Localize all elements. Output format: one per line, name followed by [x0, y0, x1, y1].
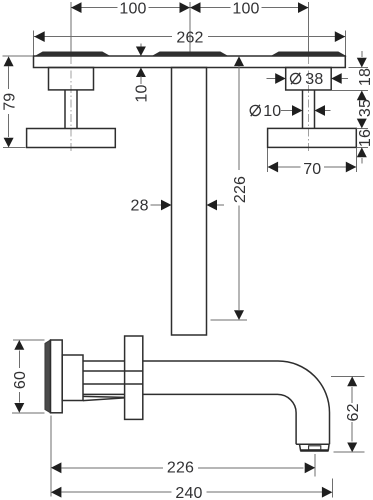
centerline left handle	[70, 2, 72, 152]
dim 28	[151, 200, 225, 211]
svg-text:18: 18	[357, 68, 373, 86]
left handle stem	[65, 90, 77, 129]
spout tube bottom outline	[143, 394, 296, 444]
svg-text:62: 62	[345, 403, 362, 421]
dim 70 arrows	[268, 162, 357, 173]
svg-text:262: 262	[176, 29, 203, 46]
left handle bar	[27, 129, 116, 148]
handle disc body	[51, 340, 63, 413]
svg-text:79: 79	[1, 93, 18, 111]
taper wedge	[83, 396, 124, 400]
label diameter 38	[291, 71, 324, 88]
cap left	[36, 52, 109, 56]
right handle stem	[303, 90, 315, 128]
svg-text:70: 70	[303, 161, 321, 178]
spout tube outline	[143, 361, 330, 444]
cap middle	[153, 52, 227, 56]
right handle bar	[268, 128, 357, 147]
dim 16 bottom arrow	[357, 147, 367, 163]
dim 35 arrows	[357, 119, 367, 129]
dim 240 ext right	[331, 479, 333, 498]
svg-text:35: 35	[357, 99, 373, 117]
dim 70 ext lines	[268, 148, 357, 172]
dim 70 line	[268, 166, 357, 168]
right chain ext escutcheon bottom	[331, 90, 368, 92]
svg-text:28: 28	[130, 198, 148, 215]
svg-text:226: 226	[232, 176, 249, 203]
dim 38 arrows	[267, 73, 349, 84]
cap right	[272, 52, 345, 56]
label diameter 10	[250, 103, 281, 120]
dim 226 ext right	[314, 454, 316, 476]
dim 226 bottom	[51, 462, 315, 473]
dim 100 left arrow	[71, 2, 82, 13]
dim 100 right arrow	[298, 2, 309, 13]
dim 79	[3, 56, 34, 148]
dim 18 arrows	[357, 51, 367, 100]
handle sleeve	[62, 355, 83, 401]
svg-text:100: 100	[232, 0, 259, 17]
spout top view	[172, 68, 207, 336]
left handle escutcheon	[49, 68, 94, 90]
cross handle bar side view	[125, 336, 143, 419]
svg-text:226: 226	[167, 460, 194, 477]
right chain ext plate bottom	[349, 67, 369, 69]
wall reference line	[50, 416, 52, 497]
svg-text:100: 100	[119, 0, 146, 17]
dim 60	[12, 340, 45, 413]
dim 226 top view	[211, 56, 248, 320]
dim 10 stem arrows	[281, 105, 331, 116]
svg-text:38: 38	[305, 71, 323, 88]
right chain ext bar top	[356, 127, 368, 129]
svg-text:60: 60	[12, 371, 29, 389]
spout tube bottom line left	[83, 393, 124, 395]
ext lines 262	[34, 31, 346, 56]
dim 262 arrows	[34, 31, 345, 42]
dim 10 plate thickness	[136, 44, 146, 85]
dim 100 double arrow	[180, 2, 201, 13]
handle disc front face	[45, 340, 51, 413]
dim 100 left line	[71, 7, 309, 9]
wall plate	[34, 56, 346, 68]
dim 240	[51, 487, 333, 498]
centerline spout	[189, 2, 191, 52]
svg-text:16: 16	[357, 129, 373, 147]
aerator	[296, 444, 329, 451]
spout tube top line left	[83, 360, 124, 362]
dim 262 line	[34, 36, 346, 38]
svg-text:240: 240	[175, 485, 202, 500]
right handle escutcheon	[286, 68, 332, 91]
dim 62	[331, 376, 365, 452]
centerline right handle	[308, 2, 310, 152]
svg-text:10: 10	[134, 84, 151, 102]
handle stem lines	[83, 371, 143, 384]
svg-text:10: 10	[263, 103, 281, 120]
right chain ext bar bottom	[356, 146, 368, 148]
